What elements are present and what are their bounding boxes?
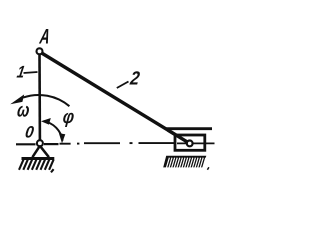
link 2 inside slider	[168, 130, 190, 143]
left ground hatching	[19, 160, 54, 173]
dash-dot dot	[77, 143, 79, 145]
link 2 (connecting rod A-slider)	[40, 52, 190, 143]
pivot O support triangle	[32, 146, 49, 157]
right ground stray mark	[207, 167, 209, 170]
omega arc (angular velocity arrow, CCW over crank)	[23, 95, 69, 106]
slider guide top rail	[166, 127, 212, 130]
dash-dot long dash	[139, 142, 175, 144]
leader tick for label 1	[24, 72, 38, 73]
pin joint at slider	[187, 141, 193, 147]
pivot O circle	[37, 140, 43, 146]
left ground line	[22, 157, 55, 160]
phi arrowhead top (points to link 1)	[41, 118, 51, 125]
dash-dot centerline dash	[60, 143, 71, 145]
dash-dot long dash	[84, 142, 120, 144]
omega arrowhead	[10, 94, 24, 104]
axis solid segment left of O	[16, 143, 36, 145]
link 1 (crank OA)	[38, 53, 41, 141]
axis through slider redraw	[177, 142, 215, 144]
dash-dot dot	[130, 142, 133, 144]
phi arc (angle from vertical crank to horizontal axis)	[44, 121, 63, 140]
joint A circle	[37, 48, 43, 54]
leader tick for label 2	[117, 82, 129, 89]
slider block	[175, 135, 205, 150]
right ground white slashes	[166, 158, 205, 168]
svg-text:φ: φ	[62, 106, 76, 128]
right ground hatched band	[163, 156, 206, 168]
phi arrowhead bottom (points to axis)	[59, 133, 65, 143]
axis solid segment right of O	[44, 143, 59, 145]
